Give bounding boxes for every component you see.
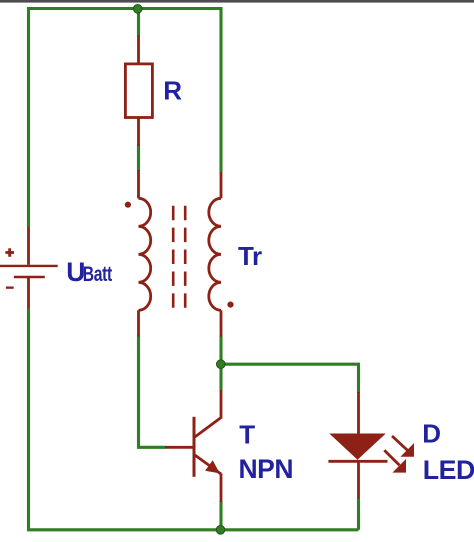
svg-text:NPN: NPN: [239, 454, 294, 484]
svg-text:Batt: Batt: [83, 263, 112, 286]
svg-text:Tr: Tr: [238, 241, 262, 271]
svg-text:R: R: [163, 76, 182, 106]
svg-text:D: D: [422, 419, 440, 449]
svg-text:T: T: [239, 420, 255, 450]
svg-text:LED: LED: [423, 455, 474, 485]
